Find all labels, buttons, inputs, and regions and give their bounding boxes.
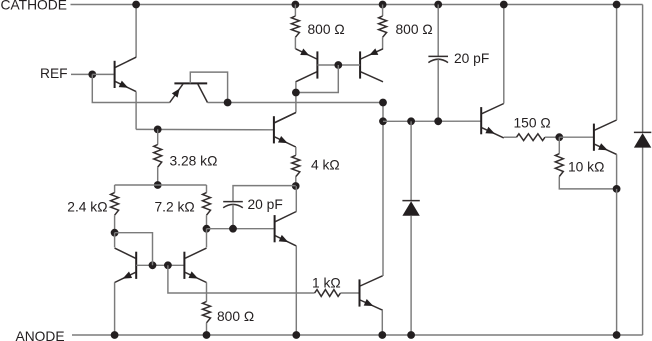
wire Q1 collector bend	[135, 56, 138, 58]
wire R800a top lead	[294, 5, 296, 17]
capacitor C2 20pF	[223, 202, 243, 208]
junction cathode/Q1	[132, 1, 140, 9]
wire C1 bottom lead	[437, 59, 439, 121]
wire Q9 emitter to anode	[616, 189, 618, 335]
wire Q9 collector up	[616, 5, 618, 121]
junction Q2 base/collector	[224, 99, 232, 107]
diode D2	[634, 132, 651, 147]
junction mirror tie	[149, 261, 157, 269]
svg-text:2.4 kΩ: 2.4 kΩ	[67, 200, 107, 215]
transistor Q2 bar	[174, 82, 207, 84]
wire R10k top lead	[558, 137, 560, 154]
node REF label	[40, 66, 68, 81]
wire D1 bottom lead	[410, 216, 412, 335]
wire R150 to node	[545, 136, 559, 138]
capacitor C1 20pF	[428, 56, 448, 62]
wire Q2 collector row	[208, 102, 384, 104]
resistor R4k 4kohm	[292, 155, 300, 176]
resistor R10k 10kohm	[555, 154, 563, 177]
transistor Q9 (output)	[594, 120, 617, 154]
wire Q8 emitter to R150	[504, 136, 517, 138]
junction cathode/R800a	[292, 1, 300, 9]
diode D1	[402, 201, 419, 216]
wire C1 top lead	[437, 5, 439, 57]
wire Qout emitter down	[381, 310, 383, 335]
transistor Q3 (diff pair left PNP)	[296, 49, 318, 82]
junction mirror base/1k	[164, 261, 172, 269]
svg-text:20 pF: 20 pF	[454, 51, 489, 66]
label R800b	[396, 22, 433, 37]
label R800c	[217, 309, 254, 324]
junction Q3 collector / Q4 collector	[292, 89, 300, 97]
svg-text:4 kΩ: 4 kΩ	[311, 158, 340, 173]
wire Q9 emitter down	[616, 154, 618, 189]
wire node to Q9 base	[559, 136, 593, 138]
resistor R2k4 2.4kohm	[111, 193, 119, 216]
transistor QB (mirror right)	[184, 248, 206, 282]
label R7k2	[155, 200, 195, 215]
junction cathode/R800b	[379, 1, 387, 9]
junction cathode/C1	[434, 1, 442, 9]
label R3k28	[170, 154, 218, 169]
wire R800b top lead	[382, 5, 384, 17]
junction QA emitter/anode	[111, 331, 119, 339]
junction R4k bottom	[292, 182, 300, 190]
wire R3k28 top lead	[157, 129, 159, 144]
wire mirror collector-base tie	[115, 233, 153, 266]
wire Q4 collector diagonal	[275, 113, 296, 123]
wire right edge (cathode-to-diode branch)	[642, 5, 644, 336]
svg-text:800 Ω: 800 Ω	[308, 22, 345, 37]
wire cathode rail	[71, 4, 643, 6]
wire comp row	[383, 120, 481, 122]
junction C1 bottom	[434, 117, 442, 125]
junction Q9/anode	[613, 331, 621, 339]
wire R800c bottom lead	[206, 323, 208, 335]
node CATHODE label	[1, 0, 67, 13]
resistor R800a 800ohm	[291, 16, 299, 37]
svg-text:800 Ω: 800 Ω	[396, 22, 433, 37]
wire QA emitter down	[114, 282, 116, 335]
label R800a	[308, 22, 345, 37]
transistor QA (mirror left)	[115, 248, 137, 282]
junction R150/R10k	[555, 133, 563, 141]
wire diff pair base link	[317, 64, 360, 66]
wire R7k2 top lead	[206, 185, 208, 193]
wire R3k28 bottom lead	[157, 167, 159, 185]
resistor R3k28 3.28kohm	[154, 145, 162, 168]
junction REF node	[88, 71, 96, 79]
wire R7k2 bottom lead	[206, 215, 208, 229]
junction D1/anode	[407, 331, 415, 339]
svg-text:10 kΩ: 10 kΩ	[568, 160, 604, 175]
wire REF node down	[92, 74, 169, 102]
junction node A / R3k28	[154, 125, 162, 133]
wire R4k bottom lead	[295, 177, 297, 186]
svg-text:800 Ω: 800 Ω	[217, 309, 254, 324]
label R4k	[311, 158, 340, 173]
wire Q1 emitter down	[135, 92, 137, 130]
wire QB emitter to R800c	[206, 282, 208, 301]
wire Qout collector up	[382, 103, 384, 277]
junction cathode/Q8	[500, 1, 508, 9]
resistor R150 150ohm	[517, 134, 546, 141]
junction cathode/Q9	[613, 1, 621, 9]
wire QB collector up	[206, 229, 208, 248]
transistor Qout	[360, 276, 383, 310]
junction Q9 emitter/R10k	[613, 185, 621, 193]
wire base tie down	[296, 65, 338, 93]
junction Q6 emitter/anode	[292, 331, 300, 339]
junction R2k4 bottom	[111, 229, 119, 237]
wire R2k4 top lead	[114, 185, 116, 193]
junction diff bases	[334, 61, 342, 69]
resistor R1k 1kohm	[315, 290, 341, 297]
wire ladder top row	[115, 184, 207, 186]
junction C2 bottom	[229, 225, 237, 233]
wire mirror base link	[136, 264, 184, 266]
svg-text:1 kΩ: 1 kΩ	[312, 275, 341, 290]
wire R1k to Qout base	[341, 292, 359, 294]
wire node A row (Q1 emitter to Q4 base)	[136, 128, 273, 130]
junction R3k28 bottom	[154, 181, 162, 189]
wire Q3 collector drop	[295, 82, 297, 113]
junction Qout collector/comp row	[379, 117, 387, 125]
svg-text:REF: REF	[40, 66, 68, 81]
junction Qout collector/row	[379, 99, 387, 107]
wire anode rail	[72, 334, 643, 336]
wire Q1 collector	[135, 5, 137, 58]
wire R10k bottom lead	[559, 177, 616, 189]
label C1	[454, 51, 489, 66]
wire R800a to Q3 emitter	[294, 37, 296, 49]
svg-text:7.2 kΩ: 7.2 kΩ	[155, 200, 195, 215]
wire Q6 base row	[207, 228, 274, 230]
svg-text:CATHODE: CATHODE	[1, 0, 67, 13]
node ANODE label	[16, 329, 65, 341]
wire REF to Q1 base	[92, 73, 114, 75]
wire Q4 emitter to R4k	[295, 147, 297, 155]
label R2k4	[67, 200, 107, 215]
label R10k	[568, 160, 604, 175]
wire Q8 collector up	[503, 5, 505, 104]
junction D1 top	[407, 117, 415, 125]
wire R800b to Q5 emitter	[382, 37, 384, 49]
label C2	[248, 197, 283, 212]
transistor Q4	[274, 113, 296, 147]
resistor R800c 800ohm	[203, 302, 211, 323]
wire D1 top lead	[410, 121, 412, 200]
junction R7k2 bottom	[203, 225, 211, 233]
junction Qout emitter/anode	[378, 331, 386, 339]
transistor Q1	[115, 57, 137, 91]
transistor Q6	[275, 212, 297, 246]
junction R800c/anode	[203, 331, 211, 339]
wire C2 bottom lead	[232, 205, 234, 229]
transistor Q2 collector	[198, 84, 208, 103]
svg-text:20 pF: 20 pF	[248, 197, 283, 212]
svg-text:3.28 kΩ: 3.28 kΩ	[170, 154, 218, 169]
wire C2 top link	[233, 186, 296, 202]
svg-text:ANODE: ANODE	[16, 329, 65, 341]
label R150	[514, 116, 551, 131]
wire Q6 collector up	[295, 186, 297, 212]
resistor R800b 800ohm	[379, 16, 387, 37]
transistor Q2 emitter	[170, 84, 183, 103]
wire Q6 emitter down	[295, 246, 297, 335]
wire base to R1k row	[168, 265, 315, 293]
resistor R7k2 7.2kohm	[203, 193, 211, 216]
wire QA collector drop	[114, 233, 116, 248]
wire R2k4 bottom lead	[114, 215, 116, 233]
wire REF lead	[71, 73, 92, 75]
transistor Q5 (diff pair right PNP)	[360, 48, 383, 81]
transistor Q8 (driver)	[481, 104, 504, 138]
svg-text:150 Ω: 150 Ω	[514, 116, 551, 131]
wire Q2 base tie	[190, 72, 227, 102]
label R1k	[312, 275, 341, 290]
